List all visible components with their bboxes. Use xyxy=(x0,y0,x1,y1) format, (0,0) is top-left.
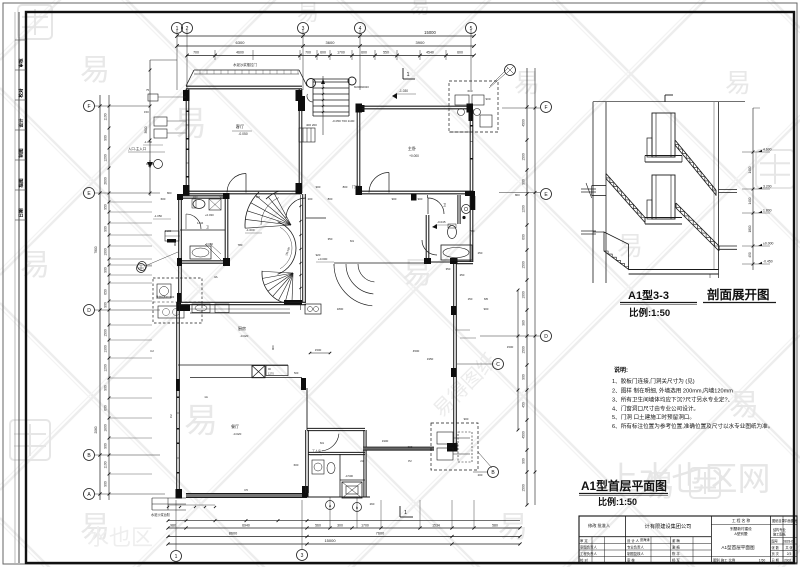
svg-text:350: 350 xyxy=(328,237,333,241)
svg-text:1∶50: 1∶50 xyxy=(759,559,766,563)
svg-text:图号: 图号 xyxy=(772,539,778,544)
svg-text:2002.7: 2002.7 xyxy=(784,559,794,563)
svg-text:1A: 1A xyxy=(204,395,208,399)
svg-text:600: 600 xyxy=(320,51,326,55)
svg-text:1000: 1000 xyxy=(522,291,526,299)
svg-text:餐厅: 餐厅 xyxy=(231,423,239,429)
svg-text:易: 易 xyxy=(617,231,643,261)
svg-text:P2: P2 xyxy=(408,459,412,463)
svg-text:M1: M1 xyxy=(350,239,354,243)
svg-text:4500: 4500 xyxy=(413,349,420,353)
svg-text:4540: 4540 xyxy=(426,51,434,55)
svg-text:谢 梅: 谢 梅 xyxy=(672,538,680,543)
svg-text:4500: 4500 xyxy=(522,431,526,439)
svg-text:工 程 名 称: 工 程 名 称 xyxy=(732,518,751,523)
svg-text:1100: 1100 xyxy=(104,461,108,468)
svg-text:C2: C2 xyxy=(150,349,154,353)
svg-text:2100: 2100 xyxy=(165,229,172,233)
svg-text:650: 650 xyxy=(104,289,108,295)
svg-text:900: 900 xyxy=(484,307,489,311)
svg-text:6300: 6300 xyxy=(236,40,246,45)
svg-text:制图复核人: 制图复核人 xyxy=(627,551,645,556)
svg-text:450: 450 xyxy=(522,402,526,408)
svg-text:250: 250 xyxy=(478,251,483,255)
svg-text:1500: 1500 xyxy=(522,346,526,354)
svg-text:600: 600 xyxy=(361,51,367,55)
svg-text:F: F xyxy=(87,104,90,110)
svg-text:200: 200 xyxy=(308,197,313,201)
svg-text:1900: 1900 xyxy=(382,439,389,443)
svg-text:800: 800 xyxy=(343,185,348,189)
svg-text:5、门洞 口土建施工时预留洞口。: 5、门洞 口土建施工时预留洞口。 xyxy=(612,413,695,421)
svg-text:900: 900 xyxy=(104,443,108,449)
svg-text:780: 780 xyxy=(238,243,243,247)
svg-text:比例:1:50: 比例:1:50 xyxy=(629,307,670,319)
svg-text:380: 380 xyxy=(522,320,526,326)
svg-text:200: 200 xyxy=(193,195,198,199)
svg-text:1800: 1800 xyxy=(337,307,344,311)
svg-text:4.600: 4.600 xyxy=(763,148,772,152)
svg-text:600: 600 xyxy=(457,51,463,55)
svg-text:+0.000: +0.000 xyxy=(409,154,419,158)
svg-text:D: D xyxy=(87,308,91,314)
svg-text:C5: C5 xyxy=(244,488,248,492)
svg-text:±0.000: ±0.000 xyxy=(763,242,773,246)
svg-text:1200: 1200 xyxy=(104,154,108,162)
svg-text:1700: 1700 xyxy=(361,524,369,528)
svg-text:1950: 1950 xyxy=(427,357,434,361)
svg-text:3A: 3A xyxy=(214,275,218,279)
svg-text:600: 600 xyxy=(522,234,526,240)
svg-text:1500: 1500 xyxy=(507,345,514,349)
svg-text:2A: 2A xyxy=(360,459,364,463)
svg-text:A1型首层平面图: A1型首层平面图 xyxy=(581,479,667,493)
svg-text:制图: 制图 xyxy=(18,148,25,158)
svg-text:杨 军: 杨 军 xyxy=(672,558,680,563)
svg-text:1400: 1400 xyxy=(748,197,752,204)
svg-text:M20092020: M20092020 xyxy=(354,85,369,89)
svg-text:共 张: 共 张 xyxy=(785,545,793,550)
svg-text:200: 200 xyxy=(478,473,483,477)
svg-text:-1.000: -1.000 xyxy=(246,228,255,232)
svg-text:审 核: 审 核 xyxy=(627,558,635,563)
svg-text:560: 560 xyxy=(315,524,321,528)
svg-text:水泥沙浆推拉门: 水泥沙浆推拉门 xyxy=(233,62,257,67)
svg-text:900: 900 xyxy=(104,135,108,141)
svg-text:A1型3-3: A1型3-3 xyxy=(628,288,669,302)
svg-text:校对: 校对 xyxy=(18,88,25,98)
svg-text:600: 600 xyxy=(104,405,108,411)
svg-text:1700: 1700 xyxy=(337,51,345,55)
svg-text:1200: 1200 xyxy=(104,364,108,372)
svg-text:1400: 1400 xyxy=(748,166,752,173)
svg-text:结构专业: 结构专业 xyxy=(773,527,786,532)
svg-text:易: 易 xyxy=(173,105,207,143)
svg-text:主卧: 主卧 xyxy=(408,145,416,152)
svg-text:900: 900 xyxy=(522,179,526,185)
svg-text:2600: 2600 xyxy=(104,177,108,185)
svg-text:谢 梅: 谢 梅 xyxy=(672,545,680,550)
svg-text:2: 2 xyxy=(186,26,189,32)
svg-text:修改 批准人: 修改 批准人 xyxy=(588,522,611,529)
svg-text:易: 易 xyxy=(729,389,759,422)
svg-text:6940: 6940 xyxy=(242,524,250,528)
svg-text:900: 900 xyxy=(220,195,225,199)
svg-text:洗衣机800X600: 洗衣机800X600 xyxy=(156,295,175,299)
svg-text:1800: 1800 xyxy=(104,424,108,432)
svg-text:3900: 3900 xyxy=(416,40,426,45)
svg-text:日 期: 日 期 xyxy=(772,558,779,563)
svg-text:易: 易 xyxy=(184,402,218,440)
svg-text:150: 150 xyxy=(468,297,473,301)
svg-text:A型别墅: A型别墅 xyxy=(734,531,748,536)
svg-text:F: F xyxy=(544,105,547,111)
svg-text:350: 350 xyxy=(446,267,451,271)
svg-text:1534: 1534 xyxy=(432,524,440,528)
svg-text:4500: 4500 xyxy=(522,119,526,127)
svg-text:1、胶板门连接,门洞关尺寸为 (见): 1、胶板门连接,门洞关尺寸为 (见) xyxy=(612,377,695,385)
svg-text:1270: 1270 xyxy=(268,372,274,376)
svg-text:易: 易 xyxy=(80,54,110,87)
svg-text:1200: 1200 xyxy=(522,205,526,213)
svg-text:300: 300 xyxy=(337,524,343,528)
svg-text:卫: 卫 xyxy=(206,225,209,229)
svg-text:600: 600 xyxy=(467,89,472,93)
svg-text:说明:: 说明: xyxy=(614,366,628,374)
svg-text:7800: 7800 xyxy=(94,246,98,253)
svg-text:1: 1 xyxy=(176,26,179,32)
svg-text:张海涛: 张海涛 xyxy=(640,537,650,542)
svg-text:设 计 人: 设 计 人 xyxy=(627,538,640,543)
svg-text:日期: 日期 xyxy=(18,208,25,218)
svg-text:-0.020: -0.020 xyxy=(233,432,242,436)
svg-text:-0.045: -0.045 xyxy=(437,220,446,224)
svg-text:950: 950 xyxy=(104,204,108,210)
svg-text:1800: 1800 xyxy=(748,225,752,232)
svg-text:陈 平: 陈 平 xyxy=(672,551,680,556)
svg-text:-1.050: -1.050 xyxy=(144,140,152,144)
svg-text:1: 1 xyxy=(175,554,178,560)
svg-text:审 定: 审 定 xyxy=(580,538,588,543)
svg-text:3、所有卫生间墙体均应下沉?尺寸另水专业定?、: 3、所有卫生间墙体均应下沉?尺寸另水专业定?、 xyxy=(612,396,733,404)
svg-text:780: 780 xyxy=(470,229,475,233)
svg-text:审核: 审核 xyxy=(18,58,25,68)
svg-text:-0.050 700 1100: -0.050 700 1100 xyxy=(332,119,355,123)
svg-text:+0.000: +0.000 xyxy=(318,257,328,261)
svg-text:900: 900 xyxy=(316,185,321,189)
svg-text:250: 250 xyxy=(460,273,465,277)
svg-text:图纸目录: 图纸目录 xyxy=(772,518,786,523)
svg-text:+0.030: +0.030 xyxy=(205,213,214,217)
svg-text:剖面展开图: 剖面展开图 xyxy=(707,287,770,302)
svg-text:900: 900 xyxy=(104,302,108,308)
svg-text:冷: 冷 xyxy=(455,441,458,446)
svg-text:500: 500 xyxy=(294,371,299,375)
svg-text:900: 900 xyxy=(104,226,108,232)
svg-text:图别 施工 比例: 图别 施工 比例 xyxy=(713,558,736,563)
svg-text:门厅: 门厅 xyxy=(352,184,359,189)
svg-text:1300: 1300 xyxy=(104,345,108,353)
svg-text:6、所有标注位置为参考位置,准确位置及尺寸以水专业图纸为准。: 6、所有标注位置为参考位置,准确位置及尺寸以水专业图纸为准。 xyxy=(612,422,773,430)
svg-text:水泥沙浆台阶: 水泥沙浆台阶 xyxy=(151,512,171,517)
svg-text:-0.450: -0.450 xyxy=(763,260,773,264)
svg-text:900: 900 xyxy=(485,97,490,101)
svg-text:D: D xyxy=(544,334,548,340)
svg-text:920: 920 xyxy=(316,253,321,257)
svg-text:2/3: 2/3 xyxy=(787,552,792,556)
svg-text:水也区: 水也区 xyxy=(87,525,153,550)
svg-text:15000: 15000 xyxy=(324,538,336,543)
svg-text:1: 1 xyxy=(404,510,407,516)
svg-text:3600: 3600 xyxy=(144,126,148,133)
svg-text:4: 4 xyxy=(359,26,362,32)
svg-text:900: 900 xyxy=(271,345,275,350)
svg-text:900: 900 xyxy=(418,197,423,201)
svg-text:1500: 1500 xyxy=(104,329,108,337)
svg-text:M1: M1 xyxy=(320,441,324,445)
svg-text:4、门窗洞口尺寸由专业公司设计。: 4、门窗洞口尺寸由专业公司设计。 xyxy=(612,405,699,413)
svg-text:计有限建设集团公司: 计有限建设集团公司 xyxy=(645,522,692,530)
svg-text:C: C xyxy=(496,362,500,368)
svg-text:1100: 1100 xyxy=(104,113,108,120)
svg-text:别墅新村建设: 别墅新村建设 xyxy=(730,526,752,531)
svg-text:75: 75 xyxy=(146,88,150,92)
svg-text:-1.030: -1.030 xyxy=(399,89,408,93)
svg-text:900: 900 xyxy=(173,241,177,246)
svg-text:1434: 1434 xyxy=(197,221,204,225)
svg-text:3: 3 xyxy=(301,553,304,559)
svg-text:厨房: 厨房 xyxy=(238,325,246,331)
svg-text:M5: M5 xyxy=(484,297,488,301)
svg-text:设计: 设计 xyxy=(18,118,25,128)
svg-text:3.200: 3.200 xyxy=(763,185,772,189)
svg-text:A1型首层平面图: A1型首层平面图 xyxy=(721,544,755,551)
svg-text:900: 900 xyxy=(104,481,108,487)
svg-text:980: 980 xyxy=(170,524,176,528)
svg-text:-0.500: -0.500 xyxy=(345,474,353,478)
svg-text:易: 易 xyxy=(498,511,528,544)
svg-text:4600: 4600 xyxy=(236,51,244,55)
svg-text:15000: 15000 xyxy=(424,30,436,35)
svg-text:580: 580 xyxy=(492,524,498,528)
svg-text:专业负责人: 专业负责人 xyxy=(627,545,645,550)
svg-text:800: 800 xyxy=(328,197,333,201)
svg-text:0828-61: 0828-61 xyxy=(783,540,795,544)
svg-text:1500: 1500 xyxy=(522,153,526,161)
svg-text:450: 450 xyxy=(748,252,752,258)
svg-text:2、图样 制在明细, 外墙选用 200mm,内墙120mm: 2、图样 制在明细, 外墙选用 200mm,内墙120mm xyxy=(612,387,733,395)
svg-text:260: 260 xyxy=(370,502,375,506)
svg-text:张 数: 张 数 xyxy=(772,545,780,550)
svg-text:-0.050: -0.050 xyxy=(205,242,213,246)
svg-text:900: 900 xyxy=(104,385,108,391)
svg-text:3: 3 xyxy=(302,26,305,32)
svg-text:600: 600 xyxy=(294,463,299,467)
svg-text:800: 800 xyxy=(167,191,172,195)
svg-text:-1.050: -1.050 xyxy=(154,214,162,218)
svg-text:900: 900 xyxy=(522,374,526,380)
svg-text:-0.050: -0.050 xyxy=(238,132,248,136)
svg-text:3600: 3600 xyxy=(326,40,336,45)
svg-text:5: 5 xyxy=(470,26,473,32)
svg-text:1500: 1500 xyxy=(522,484,526,492)
svg-text:校 对: 校 对 xyxy=(580,558,588,563)
svg-text:1: 1 xyxy=(407,72,410,78)
svg-text:2060: 2060 xyxy=(94,426,98,433)
svg-text:8600: 8600 xyxy=(229,532,237,536)
svg-text:7600: 7600 xyxy=(376,532,384,536)
svg-text:400 200: 400 200 xyxy=(306,123,317,127)
svg-text:1.800: 1.800 xyxy=(763,209,772,213)
svg-text:700: 700 xyxy=(193,51,199,55)
svg-text:1500: 1500 xyxy=(315,348,322,352)
svg-text:工程负责人: 工程负责人 xyxy=(580,551,598,556)
svg-text:入口-主入口: 入口-主入口 xyxy=(128,146,146,151)
svg-text:-0.020: -0.020 xyxy=(240,334,249,338)
svg-text:900: 900 xyxy=(104,267,108,273)
svg-text:M2: M2 xyxy=(256,195,260,199)
svg-text:900: 900 xyxy=(522,458,526,464)
svg-text:150: 150 xyxy=(144,110,149,114)
svg-text:客厅: 客厅 xyxy=(236,123,244,130)
svg-text:平面图号: 平面图号 xyxy=(784,518,798,523)
svg-text:C2: C2 xyxy=(169,414,173,418)
svg-text:工人房: 工人房 xyxy=(312,448,321,453)
svg-text:600: 600 xyxy=(161,197,166,201)
svg-text:比例:1:50: 比例:1:50 xyxy=(598,496,637,507)
svg-text:审图负责人: 审图负责人 xyxy=(580,545,598,550)
svg-text:易: 易 xyxy=(725,68,751,98)
svg-text:页 次: 页 次 xyxy=(772,551,780,556)
svg-text:施工图纸: 施工图纸 xyxy=(773,532,787,537)
svg-text:550: 550 xyxy=(383,51,389,55)
svg-text:900: 900 xyxy=(392,197,397,201)
svg-text:800: 800 xyxy=(515,193,520,197)
svg-text:600: 600 xyxy=(408,445,413,449)
svg-text:易: 易 xyxy=(20,249,50,282)
svg-text:描图: 描图 xyxy=(18,178,25,188)
svg-text:700: 700 xyxy=(305,51,311,55)
svg-text:900: 900 xyxy=(464,417,469,421)
svg-text:1000: 1000 xyxy=(104,248,108,256)
svg-text:1500: 1500 xyxy=(522,261,526,269)
